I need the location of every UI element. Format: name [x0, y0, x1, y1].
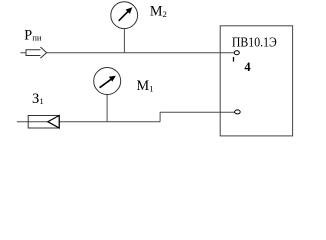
gauge M1 — [94, 68, 121, 95]
svg-text:4: 4 — [244, 60, 251, 74]
terminal node (top input) — [234, 51, 239, 55]
gauge M2 — [111, 2, 138, 29]
svg-text:М2: М2 — [150, 3, 167, 19]
wire: lower line from valve, y=121.7 — [17, 121, 160, 123]
hollow arrow (pneumatic supply input) — [26, 47, 47, 58]
svg-text:Рпи: Рпи — [24, 27, 42, 43]
device box ПВ10.1Э — [220, 26, 292, 136]
wire: gauge M1 stem — [106, 94, 108, 122]
svg-text:З1: З1 — [32, 91, 44, 107]
wire: gauge M2 stem — [123, 29, 125, 53]
pin tick 1 — [233, 57, 235, 62]
wire: supply line top, y=53 — [21, 52, 235, 54]
svg-text:М1: М1 — [137, 78, 154, 94]
svg-text:ПВ10.1Э: ПВ10.1Э — [232, 34, 277, 49]
wire: jog vertical — [159, 112, 161, 122]
wire: jog horizontal to box, y=112.2 — [160, 111, 235, 113]
terminal node (bottom input) — [235, 110, 241, 114]
valve З1 (reducer symbol) — [28, 116, 59, 129]
